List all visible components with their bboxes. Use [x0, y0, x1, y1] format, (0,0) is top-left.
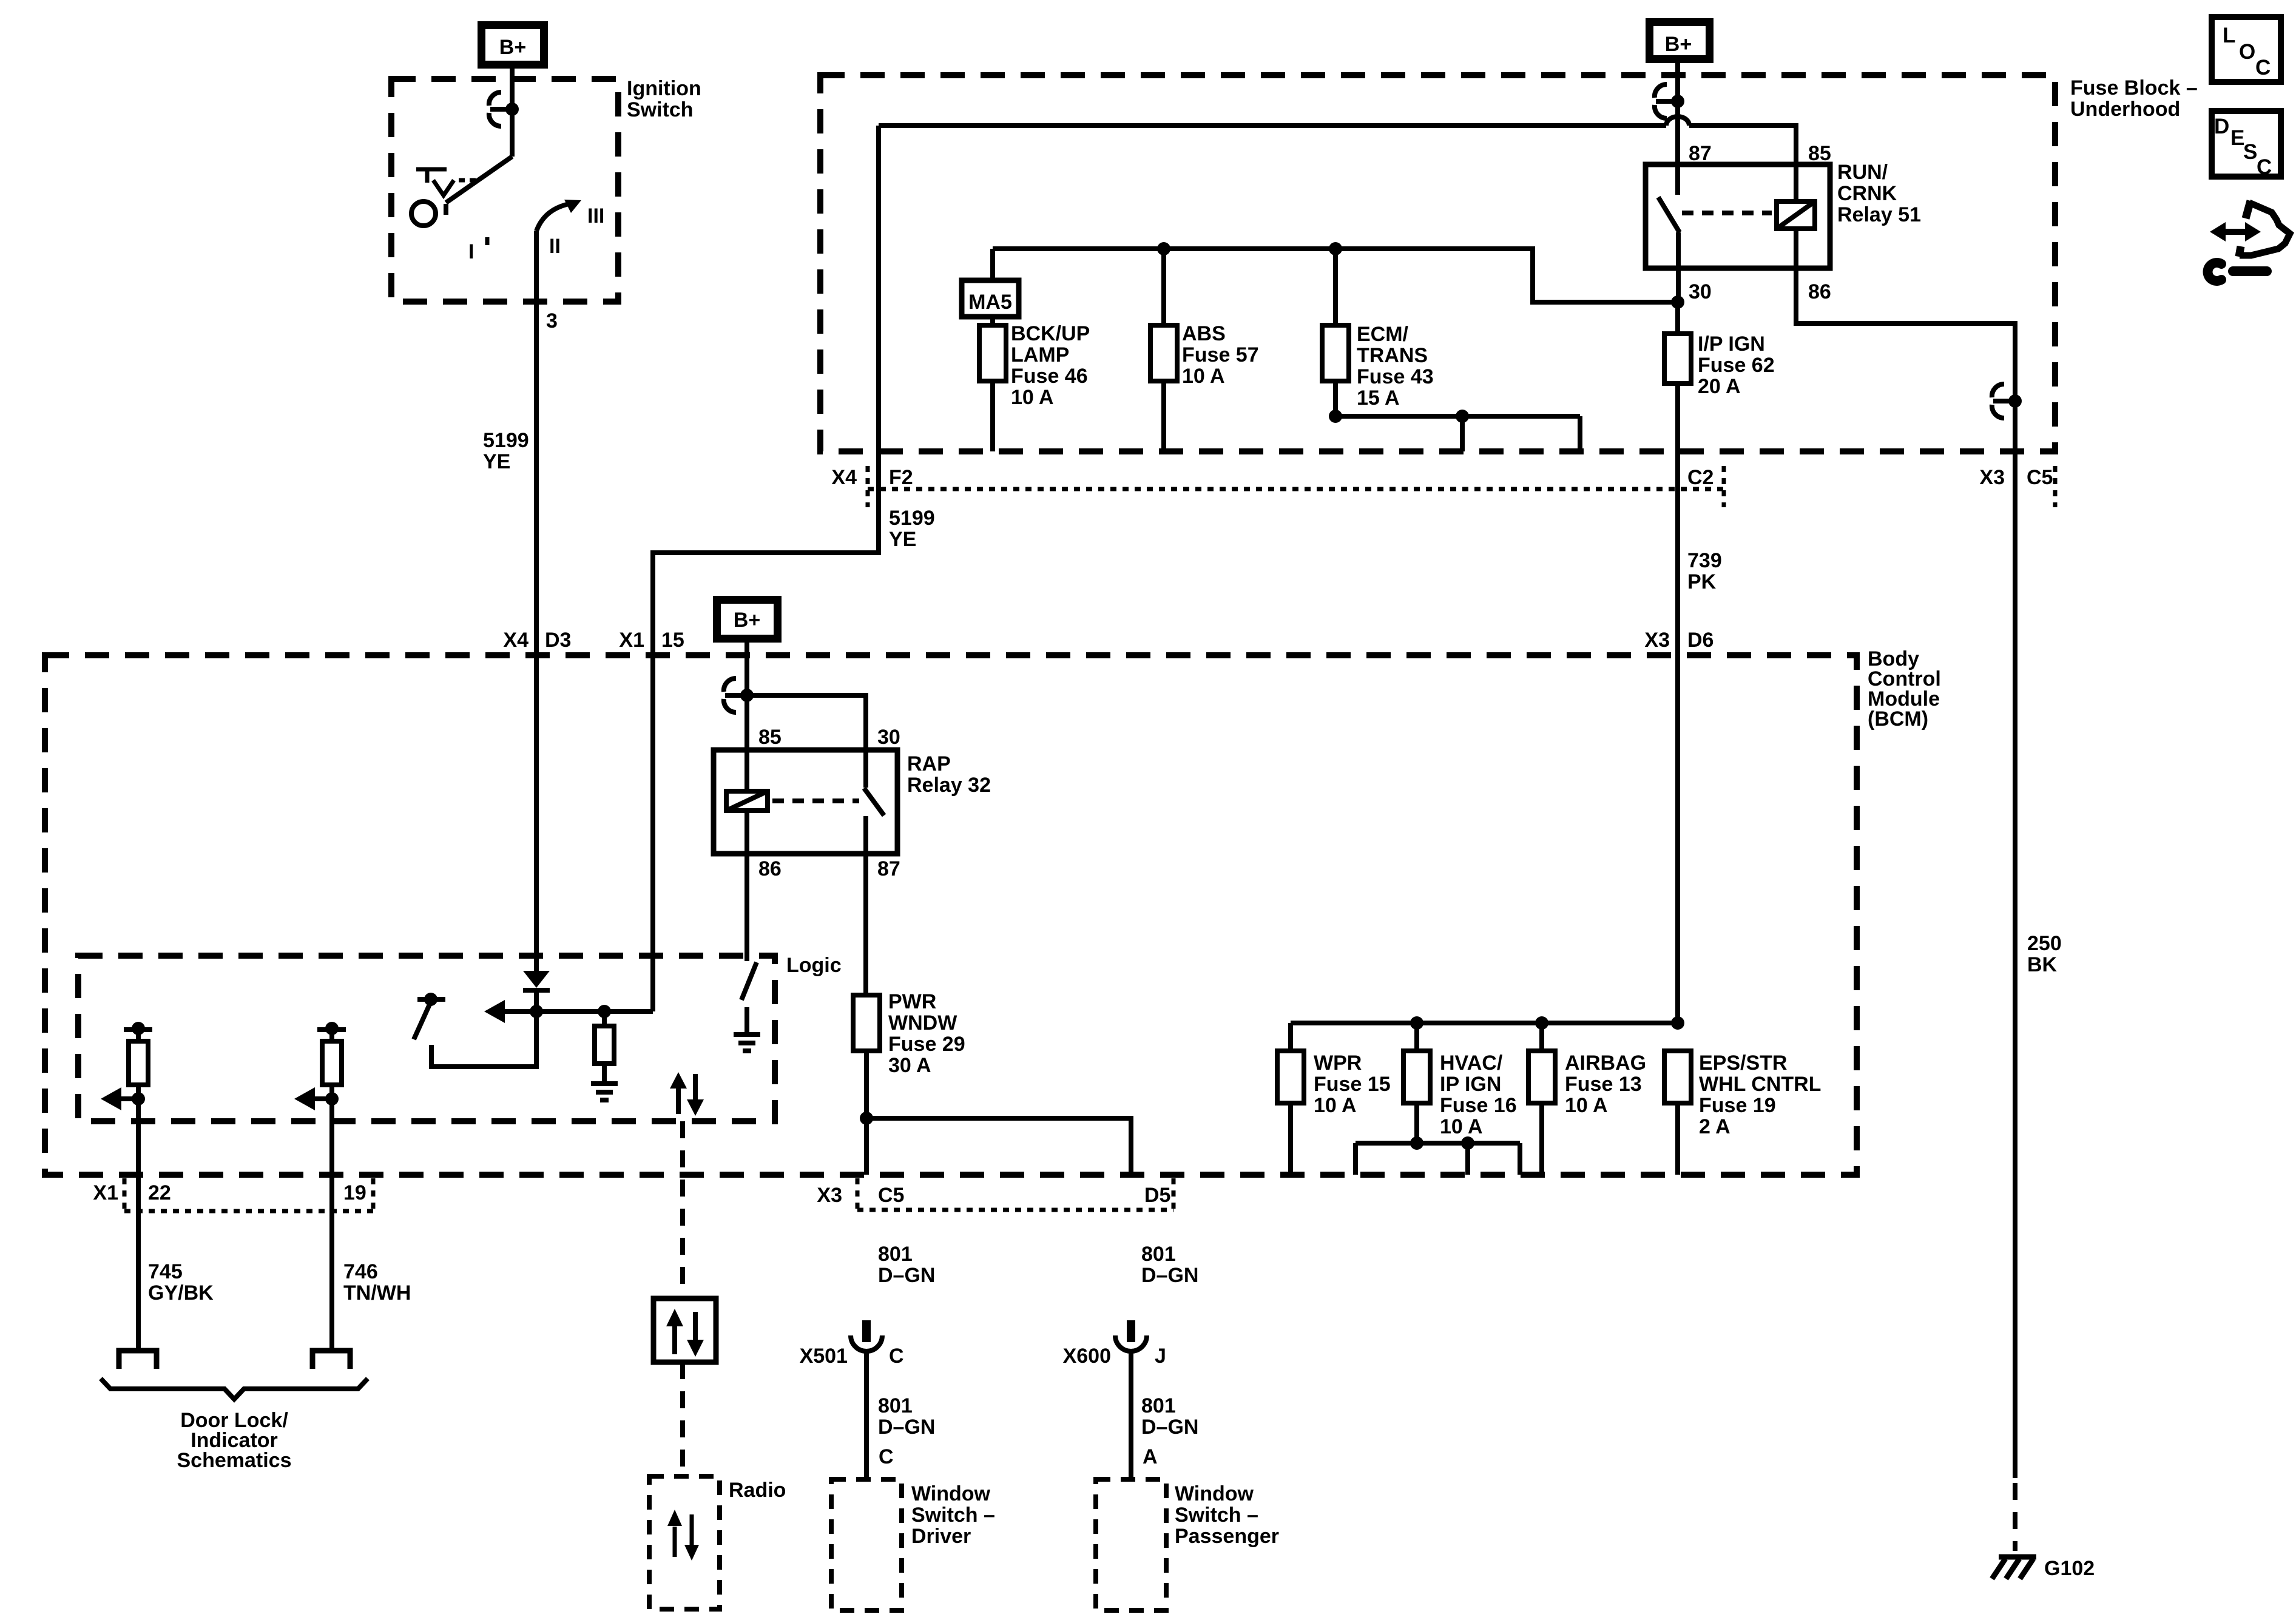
svg-text:745: 745 [148, 1260, 183, 1283]
left indicator branch: T-contact [124, 1022, 152, 1041]
wire bus to fuse 43 [1333, 249, 1338, 325]
svg-text:LAMP: LAMP [1011, 343, 1069, 366]
svg-text:BCK/UP: BCK/UP [1011, 322, 1090, 345]
wire MA5 to fuse 46 [990, 317, 995, 325]
junction diode node [530, 1005, 543, 1018]
svg-text:X3: X3 [817, 1184, 842, 1207]
label 801 D-GN (passenger) [1141, 1394, 1198, 1439]
wire B+ to ignition switch [510, 65, 515, 157]
svg-text:87: 87 [877, 857, 900, 880]
svg-text:I: I [468, 240, 474, 263]
svg-text:30 A: 30 A [888, 1054, 931, 1077]
svg-text:801: 801 [878, 1394, 913, 1417]
svg-text:Driver: Driver [911, 1525, 971, 1548]
svg-text:B+: B+ [734, 609, 760, 632]
body control module box [45, 655, 1857, 1175]
fuse 62 label [1698, 333, 1775, 398]
wire switch to ground [745, 1007, 749, 1033]
svg-text:801: 801 [1141, 1243, 1176, 1266]
svg-text:Window: Window [1175, 1482, 1254, 1505]
relay 51 label [1837, 161, 1921, 226]
fuse 43 ECM/TRANS [1322, 325, 1349, 381]
svg-text:D–GN: D–GN [1141, 1416, 1198, 1439]
svg-text:Fuse 29: Fuse 29 [888, 1033, 965, 1056]
battery feed B+ (fuse block) [1650, 22, 1710, 59]
svg-text:X501: X501 [800, 1345, 848, 1368]
svg-text:I/P IGN: I/P IGN [1698, 333, 1765, 356]
svg-text:X3: X3 [1979, 466, 2005, 489]
label 5199 YE [483, 429, 529, 473]
junction ECM sub-bus left [1329, 410, 1342, 423]
wire bus to fuse 57 [1161, 249, 1166, 325]
connector X3 pin D6 labels [1644, 629, 1714, 652]
junction BCM bus EPS [1671, 1016, 1684, 1030]
svg-text:Fuse 62: Fuse 62 [1698, 354, 1775, 377]
ECM sub-bus wire [1335, 416, 1580, 451]
svg-text:EPS/STR: EPS/STR [1699, 1052, 1787, 1075]
ignition lock cylinder symbol [416, 169, 476, 195]
svg-text:CRNK: CRNK [1837, 182, 1897, 205]
svg-text:Fuse 16: Fuse 16 [1440, 1094, 1517, 1117]
door lock switch (logic) [414, 993, 536, 1067]
logic box [78, 956, 775, 1121]
navigation double-arrow icon [2210, 201, 2290, 257]
svg-text:A: A [1143, 1445, 1158, 1468]
svg-text:HVAC/: HVAC/ [1440, 1052, 1503, 1075]
svg-text:WHL CNTRL: WHL CNTRL [1699, 1073, 1821, 1096]
connector MA5 [962, 280, 1019, 317]
ground G102 [1992, 1557, 2095, 1580]
DESC icon box [2212, 111, 2281, 179]
svg-text:Fuse 43: Fuse 43 [1357, 365, 1434, 388]
wire X501 to window switch driver [864, 1351, 869, 1479]
svg-text:5199: 5199 [889, 507, 935, 530]
resistor (indicator 746) [322, 1041, 342, 1085]
wire diode to junction [534, 993, 539, 1011]
svg-text:Fuse 19: Fuse 19 [1699, 1094, 1776, 1117]
svg-text:TRANS: TRANS [1357, 344, 1428, 367]
resistor (logic pull-down) [595, 1011, 614, 1082]
arrow output 745 [101, 1087, 145, 1110]
wire B+ to RAP relay coil pin 85 [745, 639, 749, 791]
svg-text:B+: B+ [1665, 33, 1692, 56]
connector X501 labels [800, 1345, 904, 1368]
svg-text:2 A: 2 A [1699, 1115, 1730, 1138]
svg-text:30: 30 [1689, 280, 1712, 303]
svg-text:TN/WH: TN/WH [343, 1281, 411, 1305]
svg-text:X4: X4 [831, 466, 857, 489]
connector X4 pin D3 labels [503, 629, 571, 652]
svg-text:PK: PK [1687, 570, 1717, 593]
window switch driver label [911, 1482, 995, 1548]
svg-text:Radio: Radio [729, 1479, 786, 1502]
svg-text:PWR: PWR [888, 990, 936, 1013]
svg-text:D6: D6 [1687, 629, 1714, 652]
relay 51 coil-contact link [1682, 211, 1772, 215]
crimp splice (RAP B+) [724, 678, 754, 712]
svg-text:ABS: ABS [1182, 322, 1226, 345]
wire F2 to BCM X1-15 [653, 126, 879, 1011]
svg-text:Fuse 57: Fuse 57 [1182, 343, 1259, 366]
fuse 57 ABS [1150, 325, 1177, 381]
junction ABS bus [1157, 242, 1170, 255]
svg-text:10 A: 10 A [1440, 1115, 1483, 1138]
svg-text:Passenger: Passenger [1175, 1525, 1279, 1548]
fuse 46 BCK/UP LAMP [979, 325, 1006, 381]
fuse block label [2070, 76, 2198, 121]
fuse 57 label [1182, 322, 1259, 388]
junction fuse 29 split [860, 1112, 873, 1125]
svg-text:WNDW: WNDW [888, 1011, 957, 1035]
wrench icon [2208, 263, 2267, 281]
svg-text:B+: B+ [499, 36, 526, 59]
svg-text:C: C [889, 1345, 904, 1368]
wire fuse 57 down [1161, 381, 1166, 451]
wire fuse 46 to F2 [990, 381, 995, 451]
wire fuse 29 to C5 and D5 [866, 1051, 1131, 1175]
right indicator branch: T-contact [317, 1022, 346, 1041]
svg-text:MA5: MA5 [968, 291, 1012, 314]
wire resistor to terminator [329, 1085, 334, 1349]
svg-text:C: C [879, 1445, 894, 1468]
label 250 BK [2027, 932, 2062, 976]
junction ECM bus [1329, 242, 1342, 255]
connector X3 C5 labels (fuse block right) [1979, 466, 2053, 489]
svg-text:IP IGN: IP IGN [1440, 1073, 1501, 1096]
in-line connector X600 pin J [1115, 1320, 1147, 1351]
svg-text:87: 87 [1689, 142, 1712, 165]
RAP relay coil [726, 791, 768, 811]
wire fuse 19 down [1675, 1103, 1680, 1175]
svg-text:5199: 5199 [483, 429, 529, 452]
wire fuse 15 down [1288, 1103, 1293, 1175]
svg-text:C: C [2255, 56, 2271, 79]
relay 51 switch blade [1658, 197, 1680, 302]
connector X600 labels [1063, 1345, 1166, 1368]
connector X3 pins C5 D5 labels [817, 1184, 1170, 1207]
in-line connector X501 pin C [851, 1320, 882, 1351]
connector strip dotted (X3) [857, 1178, 1173, 1210]
connector X1 pins 22 19 labels [93, 1181, 366, 1204]
svg-text:Logic: Logic [786, 954, 842, 977]
svg-text:20 A: 20 A [1698, 375, 1741, 398]
fuse 62 I/P IGN [1664, 334, 1691, 383]
RAP switch blade [864, 788, 884, 854]
svg-text:Relay 32: Relay 32 [907, 774, 991, 797]
svg-text:3: 3 [546, 309, 558, 333]
BCM fuse bus (739 PK) [1291, 1023, 1678, 1051]
wire fuse 13 down [1539, 1103, 1544, 1175]
fuse 13 label [1565, 1052, 1646, 1117]
wire ignition circuit to relay 51 coil pin 85 (hops over B+ wire) [879, 126, 1796, 201]
fuse 16 HVAC/IP IGN [1403, 1051, 1430, 1103]
wire hop over B+ [1666, 116, 1689, 126]
junction relay 51 pin 30 [1671, 295, 1684, 309]
svg-text:C: C [2257, 155, 2272, 179]
position arc with arrow [536, 200, 581, 231]
ignition OFF position circle [411, 201, 436, 226]
fuse 46 label [1011, 322, 1090, 409]
BCM label [1868, 647, 1941, 731]
svg-text:GY/BK: GY/BK [148, 1281, 214, 1305]
arrow to door lock schematics [484, 1000, 505, 1023]
wire RAP pin 86 to logic ground switch [745, 811, 749, 961]
svg-text:L: L [2223, 24, 2235, 47]
junction resistor node [598, 1005, 611, 1018]
RAP relay label [907, 752, 991, 797]
fuse 15 label [1314, 1052, 1391, 1117]
fuse 19 label [1699, 1052, 1821, 1138]
svg-text:85: 85 [758, 726, 782, 749]
label 746 TN/WH [343, 1260, 411, 1305]
svg-text:RUN/: RUN/ [1837, 161, 1888, 184]
svg-text:ECM/: ECM/ [1357, 323, 1409, 346]
svg-text:250: 250 [2027, 932, 2062, 955]
label 739 PK [1687, 549, 1722, 593]
wire RAP pin 87 to fuse 29 [863, 854, 868, 995]
wire 5199 YE (ignition switch to BCM diode) [534, 231, 539, 971]
ground (RAP 86 switch) [734, 1035, 760, 1051]
terminator (746 wire) [312, 1351, 350, 1369]
svg-text:10 A: 10 A [1182, 365, 1225, 388]
svg-text:G102: G102 [2044, 1557, 2095, 1580]
svg-text:WPR: WPR [1314, 1052, 1362, 1075]
svg-text:Switch –: Switch – [1175, 1504, 1258, 1527]
svg-text:RAP: RAP [907, 752, 951, 775]
svg-text:10 A: 10 A [1565, 1094, 1608, 1117]
connector X4 F2 labels [831, 466, 913, 489]
svg-text:YE: YE [889, 528, 916, 551]
ignition switch label [627, 77, 701, 121]
dashed link window icon to radio [680, 1362, 685, 1476]
connector X1 pin 15 labels [619, 629, 684, 652]
svg-text:10 A: 10 A [1011, 386, 1054, 409]
svg-text:X1: X1 [93, 1181, 118, 1204]
svg-text:Fuse Block –: Fuse Block – [2070, 76, 2198, 100]
svg-text:Relay 51: Relay 51 [1837, 203, 1921, 226]
svg-text:Window: Window [911, 1482, 991, 1505]
ignition switch box [391, 79, 618, 302]
svg-text:YE: YE [483, 450, 510, 473]
svg-text:D–GN: D–GN [878, 1264, 935, 1287]
svg-text:746: 746 [343, 1260, 378, 1283]
svg-text:Underhood: Underhood [2070, 98, 2180, 121]
ground (logic resistor) [591, 1084, 618, 1100]
fuse 19 EPS/STR [1664, 1051, 1691, 1103]
svg-text:O: O [2239, 40, 2255, 64]
svg-text:30: 30 [877, 726, 900, 749]
battery feed B+ (RAP relay) [717, 600, 778, 639]
ignition switch blade [446, 157, 512, 215]
radio box [649, 1476, 720, 1609]
radio up-down arrows [667, 1510, 699, 1561]
svg-text:E: E [2230, 126, 2244, 150]
window switch driver box [831, 1479, 902, 1610]
door lock schematics label [177, 1409, 292, 1472]
svg-text:C5: C5 [2027, 466, 2053, 489]
svg-text:D–GN: D–GN [878, 1416, 935, 1439]
svg-text:Switch –: Switch – [911, 1504, 995, 1527]
crimp splice (ignition B+) [489, 92, 519, 126]
window up-down arrows (logic) [670, 1072, 704, 1116]
wire B+ junction to RAP pin 30 [747, 695, 866, 788]
svg-text:III: III [587, 204, 604, 228]
wire relay 51 pin 86 to ground circuit [1796, 229, 2015, 1478]
svg-text:X600: X600 [1063, 1345, 1111, 1368]
fuse 29 label [888, 990, 965, 1077]
position I label [468, 237, 487, 263]
svg-text:S: S [2243, 140, 2257, 164]
label 801 D-GN (D5) [1141, 1243, 1198, 1287]
junction ECM sub-bus mid [1456, 410, 1469, 423]
wire X1-15 to door lock output arrow [491, 1009, 653, 1014]
fuse block underhood box [820, 75, 2055, 451]
svg-text:C2: C2 [1687, 466, 1714, 489]
junction HVAC sub-bus mid [1461, 1136, 1474, 1150]
diode (5199 circuit) [523, 971, 550, 993]
svg-text:85: 85 [1808, 142, 1831, 165]
terminator (745 wire) [119, 1351, 157, 1369]
label 801 D-GN (C5) [878, 1243, 935, 1287]
svg-text:22: 22 [148, 1181, 171, 1204]
svg-text:Schematics: Schematics [177, 1449, 292, 1472]
wire X600 to window switch passenger [1129, 1351, 1133, 1479]
svg-text:BK: BK [2027, 953, 2058, 976]
wire fuse 16 to sub-bus [1414, 1103, 1419, 1143]
svg-text:Fuse 15: Fuse 15 [1314, 1073, 1391, 1096]
connector strip dotted (X1) [124, 1178, 373, 1211]
battery feed B+ (ignition) [482, 25, 544, 65]
svg-text:801: 801 [1141, 1394, 1176, 1417]
RAP 86 ground switch blade [741, 962, 757, 1000]
brace door lock [101, 1379, 368, 1399]
svg-text:AIRBAG: AIRBAG [1565, 1052, 1646, 1075]
fuse 29 PWR WNDW [853, 995, 880, 1051]
svg-text:86: 86 [758, 857, 782, 880]
svg-text:15: 15 [661, 629, 684, 652]
wire fuse 43 to sub-bus [1333, 381, 1338, 416]
wire resistor to arrow junction [136, 1085, 141, 1349]
arrow output 746 [294, 1087, 339, 1110]
relay 51 coil [1777, 201, 1815, 229]
svg-text:15 A: 15 A [1357, 387, 1400, 410]
svg-text:X1: X1 [619, 629, 644, 652]
svg-text:D5: D5 [1144, 1184, 1170, 1207]
svg-text:Fuse 13: Fuse 13 [1565, 1073, 1642, 1096]
svg-text:801: 801 [878, 1243, 913, 1266]
fuse 13 AIRBAG [1528, 1051, 1555, 1103]
dashed link logic to window icon [680, 1121, 685, 1298]
svg-text:739: 739 [1687, 549, 1722, 572]
svg-text:D: D [2214, 115, 2229, 138]
svg-text:J: J [1155, 1345, 1166, 1368]
LOC icon box [2212, 17, 2281, 82]
label 5199 YE (F2) [889, 507, 935, 551]
svg-text:(BCM): (BCM) [1868, 707, 1928, 731]
junction HVAC sub-bus [1410, 1136, 1423, 1150]
svg-text:F2: F2 [889, 466, 913, 489]
label 801 D-GN (driver) [878, 1394, 935, 1439]
junction BCM bus HVAC [1410, 1016, 1423, 1030]
window switch passenger box [1096, 1479, 1166, 1610]
wire B+ into fuse block to relay 51 pin 87 [1675, 63, 1680, 195]
fuse bus wire in fuse block [993, 249, 1678, 302]
dashed wire to ground [2013, 1483, 2017, 1551]
RAP coil-contact link [772, 798, 859, 803]
resistor (indicator 745) [129, 1041, 148, 1085]
svg-text:II: II [549, 235, 561, 258]
svg-text:D3: D3 [545, 629, 571, 652]
RAP relay 32 box [714, 750, 897, 854]
label 745 GY/BK [148, 1260, 214, 1305]
svg-text:Ignition: Ignition [627, 77, 701, 100]
connector strip dotted line (fuse block) [868, 466, 2055, 507]
svg-text:X4: X4 [503, 629, 528, 652]
svg-text:C5: C5 [878, 1184, 904, 1207]
relay 51 box [1646, 164, 1830, 268]
fuse 43 label [1357, 323, 1434, 410]
svg-text:86: 86 [1808, 280, 1831, 303]
svg-text:Switch: Switch [627, 98, 694, 121]
svg-text:Fuse 46: Fuse 46 [1011, 365, 1088, 388]
junction BCM bus AIRBAG [1535, 1016, 1548, 1030]
crimp splice (fuse block B+) [1655, 84, 1684, 118]
window switch passenger label [1175, 1482, 1279, 1548]
wire bus to fuse 13 [1539, 1023, 1544, 1051]
HVAC sub-bus wire [1356, 1143, 1520, 1175]
svg-text:D–GN: D–GN [1141, 1264, 1198, 1287]
wire bus to fuse 16 [1414, 1023, 1419, 1051]
svg-text:X3: X3 [1644, 629, 1670, 652]
crimp splice (250 BK) [1992, 384, 2022, 418]
window movement icon box [653, 1298, 716, 1362]
fuse 16 label [1440, 1052, 1517, 1138]
fuse 15 WPR [1277, 1051, 1304, 1103]
svg-text:10 A: 10 A [1314, 1094, 1357, 1117]
wire fuse 62 to BCM (739 PK) [1675, 302, 1680, 1023]
svg-text:19: 19 [343, 1181, 366, 1204]
